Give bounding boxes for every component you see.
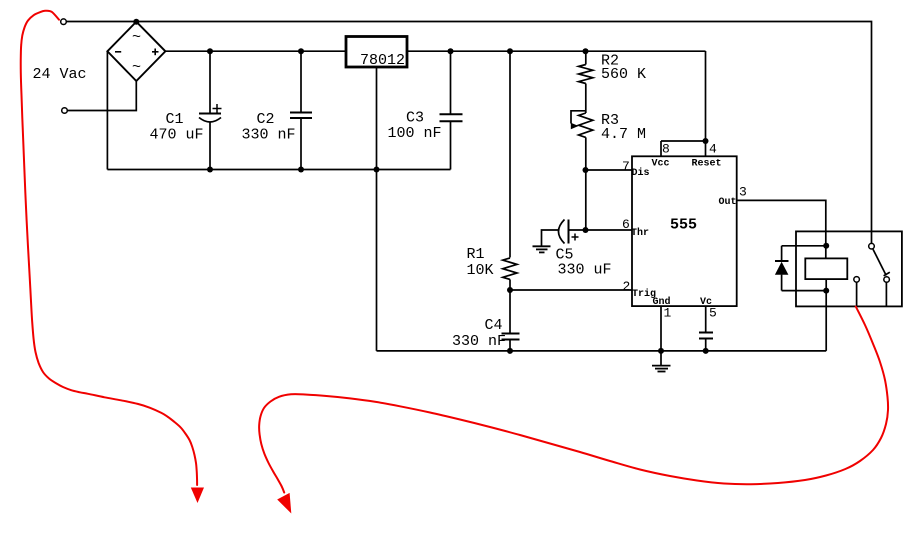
wire pin8-pin4 link: [661, 140, 706, 142]
junction R1 bottom / trigger: [507, 287, 513, 293]
svg-text:4: 4: [709, 142, 717, 157]
node AC terminal bottom: [62, 108, 68, 114]
junction C3 top: [448, 48, 454, 54]
wire trigger: [510, 289, 632, 291]
svg-text:C2: C2: [257, 111, 275, 128]
junction C2 top: [298, 48, 304, 54]
regulator U2 box 78012: [346, 37, 407, 68]
svg-text:7: 7: [622, 159, 630, 174]
svg-text:2: 2: [623, 279, 631, 294]
junction Vcc/Reset riser: [703, 138, 709, 144]
junction R3 bottom / pin 7: [583, 167, 589, 173]
ground symbol main: [660, 351, 662, 365]
diode D2 bar: [775, 260, 789, 262]
diode D2 triangle: [775, 262, 789, 275]
potentiometer R3 arrow: [571, 111, 586, 124]
capacitor C1 plates: [199, 113, 221, 115]
svg-text:Vcc: Vcc: [652, 159, 670, 170]
potentiometer R3: [579, 113, 593, 137]
wire ground rail: [377, 350, 827, 352]
resistor R2: [579, 65, 593, 84]
node switch common: [869, 243, 875, 249]
bridge symbols: [132, 29, 141, 76]
svg-text:560 K: 560 K: [601, 66, 646, 83]
junction R1 top: [507, 48, 513, 54]
svg-text:C1: C1: [166, 111, 184, 128]
node switch NO contact: [884, 277, 890, 283]
wire diode top link: [782, 245, 827, 247]
svg-text:R1: R1: [467, 246, 485, 263]
svg-text:Dis: Dis: [632, 167, 650, 179]
svg-text:Reset: Reset: [692, 159, 722, 170]
switch blade tick: [884, 272, 890, 276]
capacitor C4: [502, 333, 520, 335]
red arrowhead left: [191, 488, 204, 504]
resistor R2 lead: [585, 51, 587, 65]
bridge minus sign: [115, 51, 121, 53]
junction C4 bottom: [507, 348, 513, 354]
wire R2 to R3: [585, 84, 587, 114]
bridge plus sign: [152, 51, 159, 53]
junction coil bottom / diode: [823, 288, 829, 294]
relay K1 box: [796, 231, 902, 306]
junction C1 top: [207, 48, 213, 54]
svg-text:6: 6: [622, 217, 630, 232]
capacitor C5 plates: [568, 220, 570, 244]
wire lower AC lead: [67, 81, 136, 111]
capacitor C5 plus sign: [572, 236, 579, 238]
junction coil top / diode: [823, 243, 829, 249]
capacitor pin5 bypass: [699, 332, 713, 334]
wire pin 3 out: [737, 200, 826, 258]
junction 555 gnd on rail: [658, 348, 664, 354]
svg-text:555: 555: [670, 217, 697, 234]
wire pin 8 stub: [660, 141, 662, 156]
relay coil box: [805, 258, 847, 279]
svg-text:Out: Out: [719, 197, 737, 208]
svg-text:~: ~: [132, 59, 141, 76]
svg-text:24 Vac: 24 Vac: [33, 66, 87, 83]
capacitor C1 leads: [209, 51, 211, 113]
junction C1 bottom: [207, 167, 213, 173]
red wire annotation left: [21, 11, 197, 485]
wire C5 to ground: [542, 230, 560, 246]
junction regulator ground: [374, 167, 380, 173]
capacitor C1 plus sign: [213, 108, 222, 110]
wire R1 to C4: [509, 279, 511, 333]
ground C5: [533, 245, 551, 247]
capacitor C3: [450, 51, 452, 114]
resistor R1 lead from rail: [509, 51, 511, 258]
svg-text:C4: C4: [485, 317, 503, 334]
wire pin 7: [586, 169, 633, 171]
svg-text:3: 3: [739, 185, 747, 200]
wire Vcc riser: [705, 51, 707, 141]
op-amp U1 555 box: [632, 156, 737, 306]
node AC terminal top: [61, 19, 67, 25]
regulator U2 ground lead: [376, 67, 378, 351]
svg-text:470 uF: 470 uF: [150, 127, 204, 144]
svg-text:8: 8: [662, 142, 670, 157]
svg-text:C3: C3: [406, 110, 424, 127]
svg-text:330 uF: 330 uF: [558, 262, 612, 279]
wire R3 to pin7 junction: [585, 137, 587, 230]
junction diamond top on top rail: [133, 19, 139, 25]
wire +12V rail: [165, 50, 705, 52]
svg-text:4.7 M: 4.7 M: [601, 126, 646, 143]
wire pin 6: [586, 229, 633, 231]
svg-text:100 nF: 100 nF: [388, 125, 442, 142]
red wire annotation right: [259, 307, 888, 493]
node switch NC contact: [854, 277, 860, 283]
svg-text:330 nF: 330 nF: [452, 333, 506, 350]
svg-text:10K: 10K: [467, 262, 494, 279]
relay coil leads: [825, 279, 827, 351]
wire bottom power rail: [107, 169, 450, 171]
wire C5 right: [569, 229, 586, 231]
switch blade: [873, 249, 886, 275]
junction R2 top: [583, 48, 589, 54]
capacitor C2: [300, 51, 302, 112]
resistor R1: [503, 258, 517, 279]
wire pin 5: [705, 306, 707, 332]
diode D2 leads: [781, 246, 783, 261]
wire pin 1: [660, 306, 662, 351]
bridge rectifier D1: [107, 22, 165, 81]
junction C5 / pin 6: [583, 227, 589, 233]
wire minus drop: [106, 51, 108, 169]
junction Vc cap on rail: [703, 348, 709, 354]
wire top rail: [66, 22, 871, 244]
junction C2 bottom: [298, 167, 304, 173]
svg-text:330 nF: 330 nF: [242, 127, 296, 144]
wire diode bottom link: [782, 290, 827, 292]
wire pin 4 stub: [705, 141, 707, 156]
svg-text:78012: 78012: [360, 52, 405, 69]
svg-text:Gnd: Gnd: [653, 296, 671, 308]
svg-text:~: ~: [132, 29, 141, 46]
svg-text:Vc: Vc: [700, 297, 712, 308]
svg-text:Thr: Thr: [631, 227, 649, 239]
red arrowhead right: [277, 493, 291, 514]
